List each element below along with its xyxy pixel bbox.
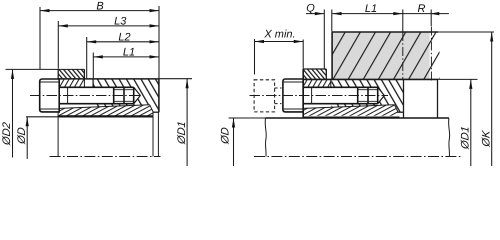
- thread minor lines (right view): [358, 90, 378, 102]
- dimension D1 (left view): [176, 79, 189, 166]
- dimension Q: [306, 3, 332, 69]
- shaft left break line: [265, 118, 266, 157]
- bore line thick (left view): [58, 115, 153, 117]
- tapped hole centerline in hub: [402, 32, 404, 79]
- svg-text:ØD1: ØD1: [460, 126, 472, 151]
- cone seam steep (right view): [395, 105, 399, 112]
- dimension B: [40, 0, 159, 78]
- screw axis centerline (left view): [30, 95, 141, 97]
- band divider (right view): [330, 79, 332, 87]
- outer sleeve block hatched (right view): [332, 80, 404, 113]
- dimension D2: [1, 69, 14, 157]
- sleeve top edge / hub bore line (right view): [303, 78, 438, 80]
- dimension R: [403, 3, 449, 26]
- svg-text:L3: L3: [114, 15, 127, 27]
- inner sleeve hatched (left view): [59, 105, 153, 116]
- screw shank outline (left view): [59, 87, 134, 103]
- outer block left face: [92, 79, 94, 87]
- sleeve top edge (left view): [58, 78, 159, 80]
- screw shank white fill (left view): [59, 87, 140, 103]
- sleeve left end face background line: [57, 112, 59, 157]
- outer block right face: [158, 79, 160, 112]
- cone seam shallow (right view): [303, 105, 394, 109]
- shaft axis centerline (right view): [254, 156, 461, 158]
- outer block bottom edge (right view): [397, 111, 403, 113]
- dimension D1 (right view): [460, 79, 473, 166]
- screw shank outline (right view): [303, 87, 378, 103]
- dimension L1 (right view): [332, 3, 403, 31]
- D extension line (left view): [26, 116, 58, 118]
- flange top edge + dimension D2 extension line: [6, 68, 85, 70]
- thread verticals (left view): [114, 87, 134, 103]
- hub left face: [331, 32, 333, 79]
- D1 extension line (left view): [159, 78, 192, 80]
- D extension line (right view): [229, 117, 266, 119]
- svg-text:ØD2: ØD2: [1, 122, 13, 147]
- inner sleeve steep hatch band (right view): [303, 80, 331, 88]
- hub break centerline: [430, 27, 432, 81]
- screw shank white fill (right view): [303, 87, 384, 103]
- screw axis centerline (right view): [250, 95, 389, 97]
- hub bore end face line: [437, 80, 439, 119]
- dimension D (left view): [16, 117, 29, 159]
- flange hatched (right view): [303, 69, 326, 79]
- dimension D (right view): [219, 118, 235, 166]
- outer block right face (right view): [403, 79, 405, 117]
- svg-text:R: R: [418, 3, 426, 15]
- D1 extension line (right view): [438, 78, 478, 80]
- cone seam steep (left view): [150, 105, 154, 112]
- sleeve right end face background lines: [152, 112, 154, 156]
- dimension L3: [58, 15, 159, 68]
- shaft top line (right view): [266, 117, 449, 119]
- screw cone point (left view): [134, 87, 141, 103]
- outer sleeve block hatched (left view): [93, 80, 159, 113]
- screw head (right view): [283, 79, 303, 112]
- dimension X min.: [255, 29, 304, 75]
- svg-text:ØD: ØD: [219, 127, 231, 146]
- dimension L1 (left view): [93, 46, 159, 78]
- cone seam shallow (left view): [59, 105, 149, 109]
- svg-text:ØD1: ØD1: [176, 121, 188, 146]
- svg-text:X min.: X min.: [263, 29, 295, 41]
- thread verticals (right view): [358, 87, 378, 103]
- dimension K: [481, 32, 494, 166]
- screw neck line: [67, 87, 69, 103]
- hub block grey fill: [332, 32, 439, 79]
- shaft right break line: [449, 118, 450, 157]
- inner sleeve shallow hatched (right view): [303, 105, 397, 116]
- flange hatched (left view): [58, 69, 84, 79]
- screw cone point (right view): [378, 87, 385, 103]
- flange left face / head right face: [302, 69, 304, 117]
- phantom screw head retracted position: [254, 80, 275, 112]
- svg-text:ØD: ØD: [16, 127, 28, 146]
- inner sleeve band under flange (left view): [59, 79, 85, 87]
- outer block bottom edge: [153, 111, 159, 113]
- screw head (left view): [40, 79, 60, 112]
- svg-text:L2: L2: [118, 31, 130, 43]
- svg-text:ØK: ØK: [481, 129, 493, 148]
- svg-text:L1: L1: [365, 3, 377, 15]
- hub top edge + K extension line: [332, 31, 438, 33]
- dimension L2: [87, 31, 159, 78]
- bore contact line thick (right view): [303, 116, 399, 118]
- svg-text:Q: Q: [306, 3, 315, 15]
- shaft axis centerline (left view): [50, 156, 161, 158]
- thread minor lines (left view): [114, 90, 134, 102]
- svg-text:B: B: [96, 0, 103, 12]
- svg-text:L1: L1: [123, 46, 135, 58]
- screw neck line (right view): [311, 87, 313, 103]
